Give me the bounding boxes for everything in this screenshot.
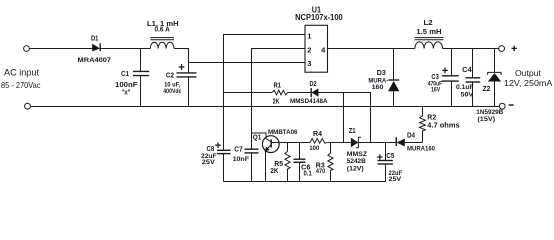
resistor R2 [420,107,460,143]
svg-text:MMSD4148A: MMSD4148A [290,98,328,105]
svg-text:50V: 50V [461,92,475,99]
resistor R3 [316,143,333,182]
svg-text:R1: R1 [274,83,282,90]
svg-text:1: 1 [307,32,312,41]
wire pin1 [224,35,306,150]
capacitor C7 [233,147,259,182]
svg-text:MURA160: MURA160 [407,145,435,152]
resistor R1 [272,83,288,106]
capacitor C4 [456,49,480,107]
svg-text:4: 4 [321,45,326,54]
svg-text:0.1: 0.1 [304,171,312,178]
wire Z1 drop [343,93,345,143]
svg-text:C2: C2 [166,72,174,79]
wire [328,142,352,144]
diode D1 [78,36,112,64]
label AC input [1,67,41,90]
resistor R5 [270,143,290,182]
svg-text:1.5 mH: 1.5 mH [416,27,441,36]
label Output [504,68,553,88]
svg-text:D4: D4 [407,133,415,140]
wire pin2 [252,49,306,149]
wire bottom AC rail [31,106,499,108]
svg-text:25V: 25V [389,176,403,183]
svg-text:160: 160 [372,84,384,91]
transistor Q1 MMBTA06 [252,129,298,182]
svg-text:C8: C8 [207,146,215,153]
svg-text:(15V): (15V) [477,116,495,123]
zener Z2 [476,49,503,123]
svg-text:25V: 25V [202,159,216,166]
svg-text:D3: D3 [377,70,386,77]
inductor L1 [147,21,179,49]
svg-text:4.7 ohms: 4.7 ohms [427,122,459,129]
svg-text:C1: C1 [121,71,129,78]
zener Z1 [347,128,396,172]
capacitor C8 [201,142,230,181]
svg-text:Z1: Z1 [349,128,356,135]
svg-text:C4: C4 [462,67,472,74]
svg-text:100: 100 [309,145,320,152]
svg-text:3: 3 [307,59,311,68]
svg-text:NCP107x-100: NCP107x-100 [295,13,343,22]
svg-text:12V, 250mA: 12V, 250mA [504,78,553,88]
wire [100,48,150,50]
wire pin3 [189,62,306,64]
capacitor C1 [115,49,149,107]
node output plus terminal [499,46,517,52]
node AC input bottom terminal [25,103,31,109]
capacitor C5 [377,143,402,184]
svg-text:(12V): (12V) [347,165,364,172]
svg-text:R5: R5 [274,161,283,168]
svg-text:Z2: Z2 [483,86,491,93]
svg-text:470: 470 [316,168,326,175]
svg-text:L2: L2 [424,20,433,27]
op-amp U1 NCP107x-100 [295,6,343,73]
svg-text:"x": "x" [122,90,131,97]
svg-text:AC input: AC input [4,67,39,77]
wire R1 row [224,92,273,94]
svg-text:5242B: 5242B [347,158,366,165]
diode D3 [368,49,399,107]
wire [318,93,371,143]
svg-text:MRA4007: MRA4007 [78,57,112,64]
wire feedback row [272,142,311,144]
resistor R4 [309,131,327,152]
node output minus terminal [499,103,513,109]
diode D4 [396,133,435,153]
svg-text:85 - 270Vac: 85 - 270Vac [1,80,41,90]
svg-text:400Vdc: 400Vdc [163,88,182,95]
svg-text:2K: 2K [273,98,280,105]
wire [30,48,93,50]
svg-text:16V: 16V [431,87,441,94]
diode D2 [290,81,328,105]
wire [174,49,189,73]
wire pin4 [328,48,415,50]
capacitor C3 [428,49,459,107]
svg-text:R2: R2 [427,115,436,122]
capacitor C2 [163,64,196,106]
capacitor C6 [294,143,312,182]
svg-text:0.6 A: 0.6 A [155,27,170,34]
inductor L2 [415,20,444,49]
svg-text:D1: D1 [91,36,98,43]
wire feedback ground rail [224,181,386,183]
svg-text:C5: C5 [386,153,394,160]
svg-text:C7: C7 [234,147,243,154]
svg-text:MMBTA06: MMBTA06 [268,129,298,136]
svg-text:100nF: 100nF [115,82,138,89]
svg-text:Q1: Q1 [253,135,262,142]
svg-text:2: 2 [307,45,311,54]
svg-text:0.1uF: 0.1uF [456,84,474,91]
wire [288,92,311,94]
wire [443,48,499,50]
node AC input top terminal [24,46,30,52]
svg-text:10nF: 10nF [233,156,250,163]
svg-text:Output: Output [515,68,541,78]
svg-text:D2: D2 [310,81,317,88]
svg-text:2K: 2K [270,168,278,175]
svg-text:R4: R4 [313,131,322,138]
